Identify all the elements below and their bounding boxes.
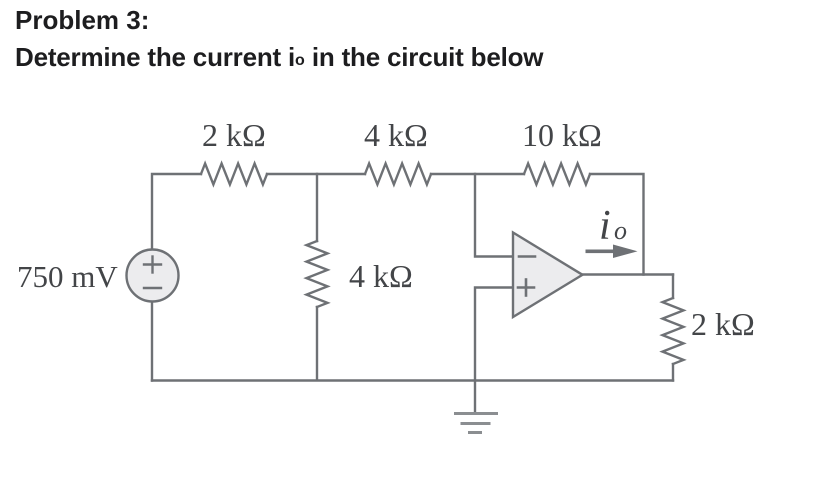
op-amp minus sign (519, 255, 535, 258)
svg-text:10 kΩ: 10 kΩ (522, 117, 602, 153)
wire non-inverting input branch down to ground (475, 288, 512, 414)
svg-text:2 kΩ: 2 kΩ (691, 306, 755, 342)
resistor R2 4k vertical (307, 241, 328, 307)
wire output corner down to R4 (672, 275, 674, 299)
wire inverting input branch from node C (475, 174, 512, 257)
title (15, 5, 149, 36)
svg-text:2 kΩ: 2 kΩ (202, 117, 266, 153)
wire op-amp output (583, 273, 674, 275)
voltage source V1 (127, 250, 179, 302)
wire source bottom stem (151, 301, 153, 381)
i_o current arrow (586, 245, 638, 259)
V1 plus sign (144, 257, 161, 273)
wire R5 to output corner (590, 174, 644, 275)
node B vertical stem to R2 (316, 174, 318, 241)
svg-text:4 kΩ: 4 kΩ (364, 117, 428, 153)
wire R2 bottom stem (316, 307, 318, 380)
svg-text:o: o (614, 216, 627, 245)
resistor R1 2k horizontal (201, 164, 267, 185)
ground (456, 414, 497, 433)
resistor R4 2k vertical (663, 298, 684, 364)
wire R4 bottom to bottom rail (672, 364, 674, 381)
V1 minus sign (144, 287, 161, 289)
subtitle (15, 42, 543, 73)
op-amp plus sign (518, 280, 534, 296)
wire top-left segment (source top to R1) (152, 174, 201, 250)
wire bottom rail (152, 379, 673, 381)
resistor R5 10k horizontal (524, 164, 590, 185)
op-amp U1 (513, 233, 583, 318)
svg-text:4 kΩ: 4 kΩ (349, 258, 413, 294)
resistor R3 4k horizontal (365, 164, 431, 185)
svg-text:i: i (599, 203, 611, 249)
wire R1 to R3 through node B (267, 173, 365, 175)
wire R3 to R5 through node C (431, 173, 524, 175)
svg-text:750 mV: 750 mV (17, 259, 118, 294)
